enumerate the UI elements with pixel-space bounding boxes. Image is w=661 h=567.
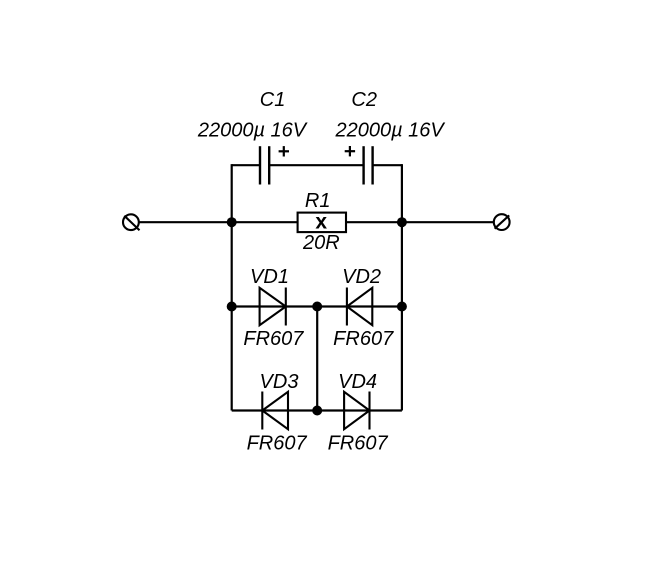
node B (right main junction) [397, 217, 407, 227]
wire top rail middle segment [269, 164, 363, 166]
node F (row2 middle junction) [312, 406, 322, 416]
diode VD4 [344, 392, 369, 430]
svg-text:VD1: VD1 [250, 266, 289, 288]
svg-text:R1: R1 [305, 190, 331, 212]
node A (left main junction) [227, 217, 237, 227]
svg-text:FR607: FR607 [333, 328, 394, 350]
resistor R1 body [298, 213, 346, 233]
svg-text:22000µ 16V: 22000µ 16V [197, 119, 308, 141]
svg-text:C2: C2 [351, 89, 377, 111]
node D (row1 middle junction) [312, 302, 322, 312]
wire top rail right segment [373, 164, 402, 166]
capacitor C2 polarity plus [345, 146, 355, 156]
wire diode row 2 [232, 409, 402, 411]
diode VD1 [260, 288, 286, 326]
wire node A to resistor R1 left lead [232, 221, 298, 223]
svg-text:22000µ 16V: 22000µ 16V [334, 119, 445, 141]
svg-text:FR607: FR607 [243, 328, 304, 350]
svg-text:VD4: VD4 [338, 371, 377, 393]
svg-text:VD2: VD2 [342, 266, 381, 288]
node C (row1 left junction) [227, 302, 237, 312]
wire diode row 1 [232, 305, 402, 307]
svg-text:VD3: VD3 [260, 371, 299, 393]
wire left vertical branch [231, 164, 233, 410]
svg-text:20R: 20R [302, 232, 340, 254]
diode VD3 [262, 392, 288, 430]
wire from left terminal to node A [139, 221, 232, 223]
diode VD2 [347, 288, 372, 326]
svg-text:FR607: FR607 [328, 432, 389, 454]
node E (row1 right junction) [397, 302, 407, 312]
terminal X1 (left input) [123, 214, 140, 230]
svg-text:FR607: FR607 [247, 432, 308, 454]
wire middle vertical branch [316, 307, 318, 411]
wire resistor R1 right lead to node B [346, 221, 402, 223]
capacitor C2 plates [364, 146, 373, 184]
wire from node B to right terminal [402, 221, 494, 223]
svg-text:x: x [315, 211, 327, 234]
capacitor C1 plates [260, 146, 269, 184]
wire top rail left segment [232, 164, 260, 166]
svg-text:C1: C1 [260, 89, 286, 111]
wire right vertical branch [401, 164, 403, 410]
capacitor C1 polarity plus [279, 146, 289, 156]
terminal X2 (right output) [494, 214, 510, 230]
